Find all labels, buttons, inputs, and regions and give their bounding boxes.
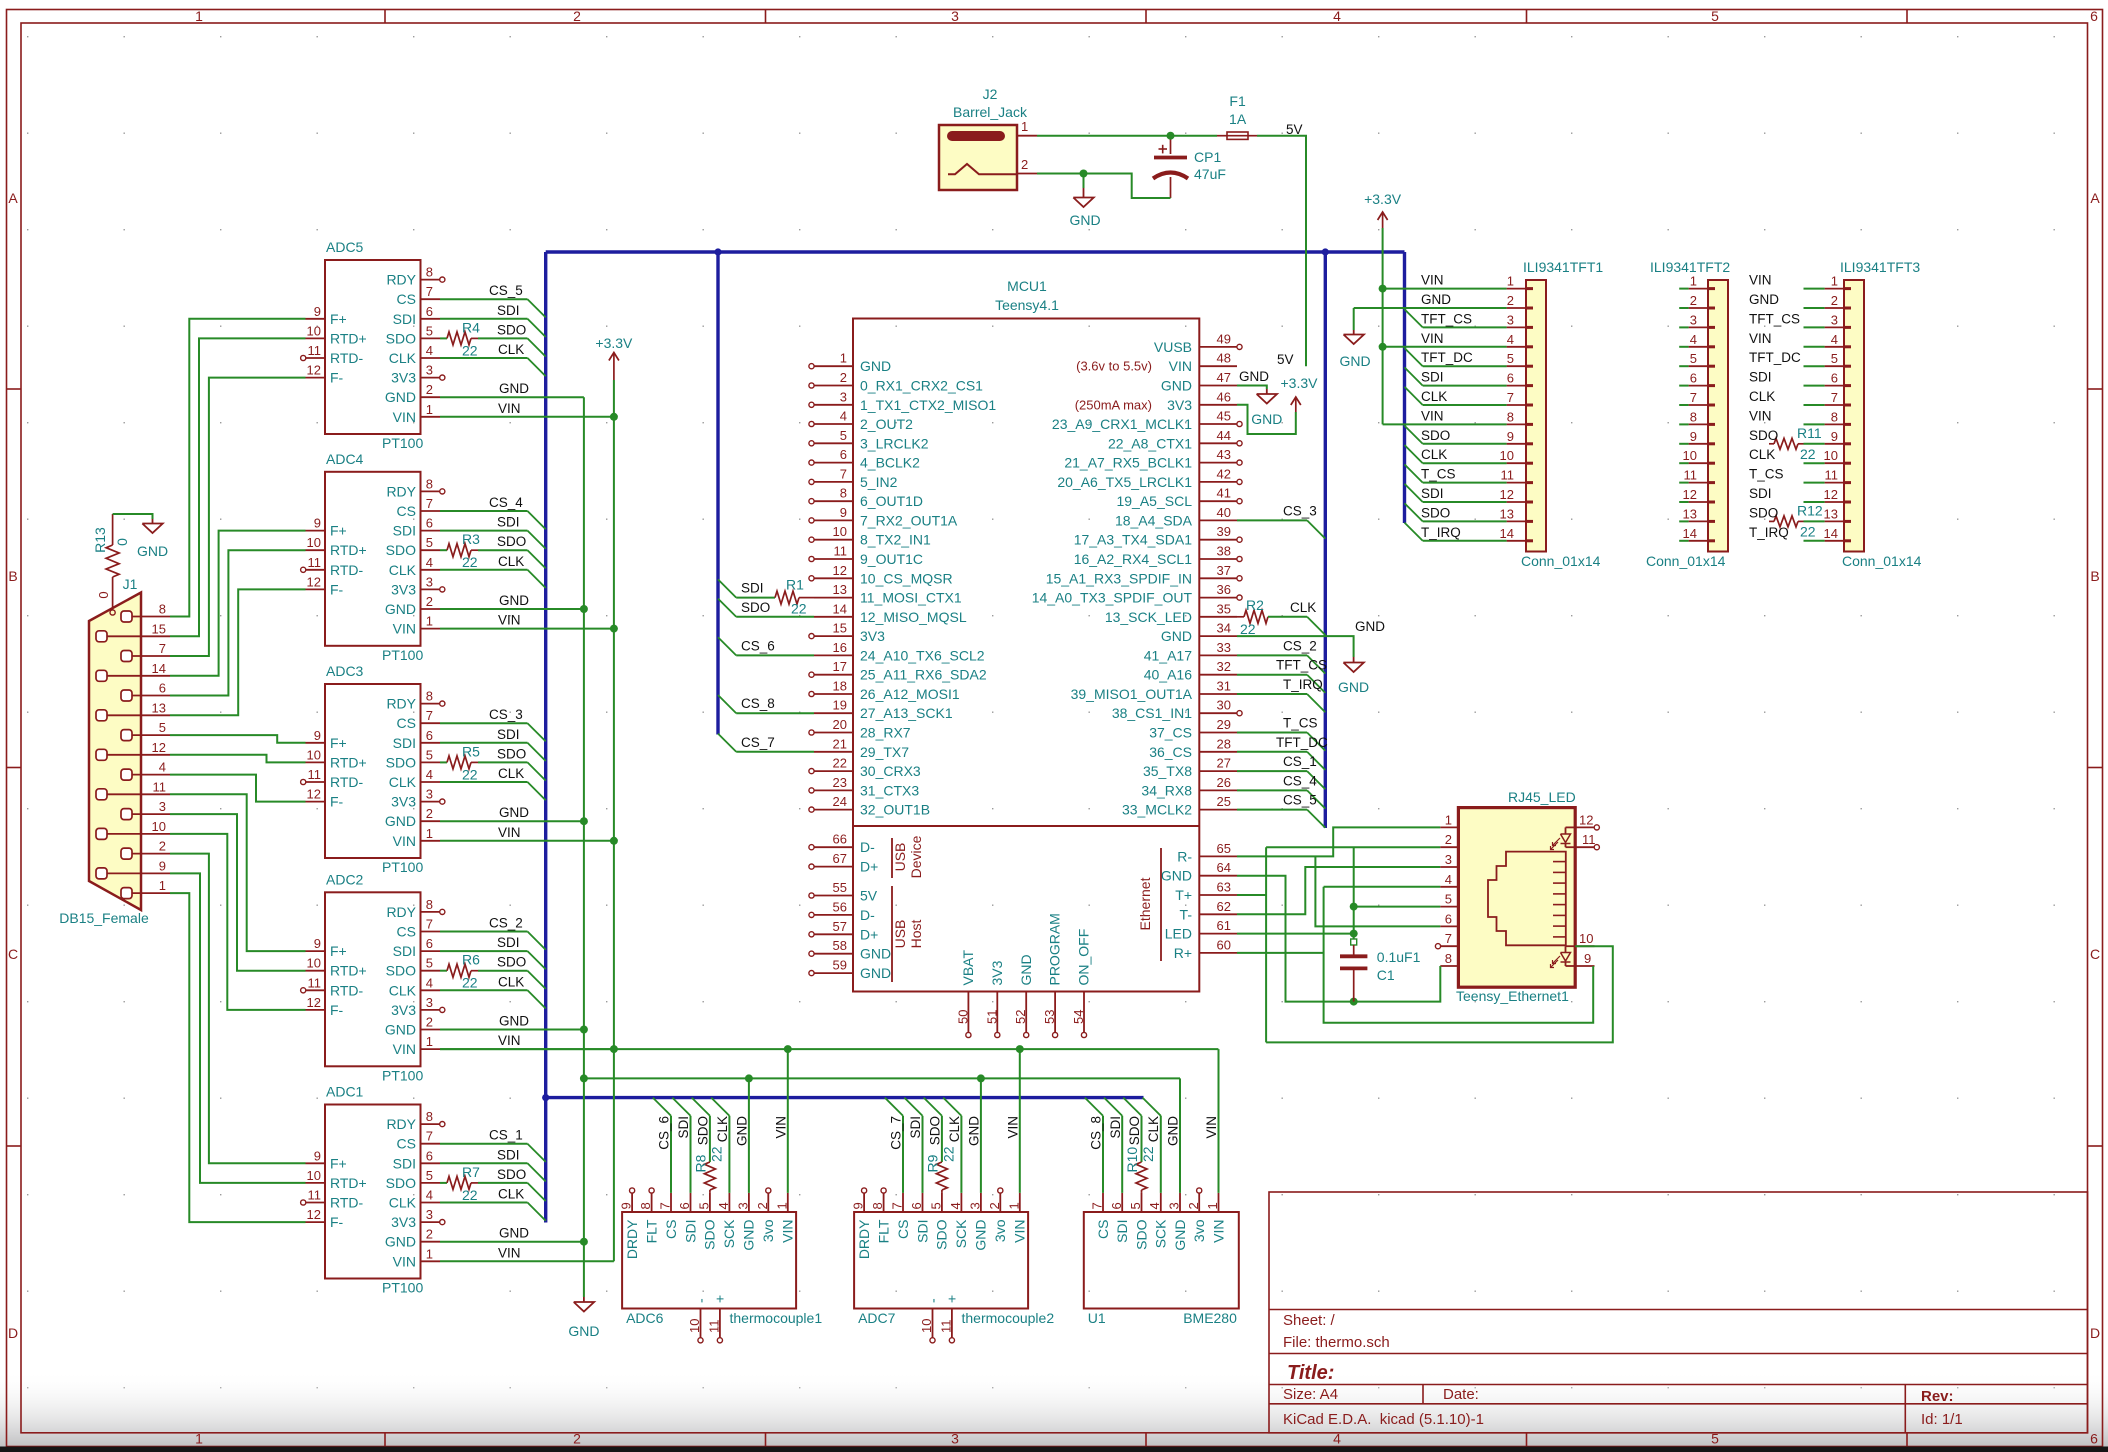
svg-text:Conn_01x14: Conn_01x14	[1842, 553, 1922, 569]
svg-text:2: 2	[1690, 293, 1697, 308]
MCU1 pin 2 0_RX1_CRX2_CS1	[814, 385, 853, 387]
MCU1 pin 13 11_MOSI_CTX1	[814, 597, 853, 599]
wire VIN to TFT1 pin 1	[1383, 288, 1507, 290]
ILI9341TFT3 pin 11 T_CS	[1825, 482, 1844, 484]
wire VIN rail (bottom)	[440, 1048, 1218, 1050]
svg-text:RTD-: RTD-	[330, 350, 364, 366]
svg-text:CS: CS	[397, 1136, 416, 1152]
ILI9341TFT1 pin 8 VIN	[1507, 423, 1526, 425]
svg-text:+3.3V: +3.3V	[1364, 191, 1402, 207]
svg-text:2: 2	[426, 806, 433, 821]
ADC2 pin 3 3V3	[421, 1009, 441, 1011]
svg-text:6: 6	[1109, 1202, 1124, 1209]
bus B3 vertical MCU-left	[716, 252, 719, 735]
svg-text:2: 2	[573, 8, 581, 24]
ADC2 pin 1 VIN	[421, 1048, 441, 1050]
svg-text:3: 3	[1167, 1202, 1182, 1209]
MCU1 pin 28 36_CS	[1199, 751, 1237, 753]
svg-text:33: 33	[1217, 640, 1231, 655]
svg-text:11: 11	[308, 975, 322, 990]
svg-text:GND: GND	[385, 813, 416, 829]
svg-text:GND: GND	[385, 1234, 416, 1250]
svg-text:ADC6: ADC6	[626, 1310, 664, 1326]
ILI9341TFT1 pin 13 SDO	[1507, 520, 1526, 522]
svg-text:18: 18	[833, 679, 847, 694]
MCU1 pin 8 6_OUT1D	[814, 500, 853, 502]
ILI9341TFT3 pin 7 CLK	[1825, 404, 1844, 406]
junction C1 bottom	[1350, 998, 1358, 1006]
svg-text:4: 4	[1147, 1202, 1162, 1209]
svg-text:-: -	[692, 1298, 708, 1303]
svg-text:13_SCK_LED: 13_SCK_LED	[1105, 609, 1192, 625]
svg-text:1: 1	[426, 1034, 433, 1049]
svg-text:5: 5	[426, 747, 433, 762]
wire T+ MCU63 to RJ45 pin2	[1237, 894, 1266, 896]
svg-text:SDI: SDI	[908, 1116, 923, 1139]
RJ45 pin 4	[1440, 886, 1458, 888]
wire J1 pin 9 to ADC	[170, 873, 306, 1183]
ILI9341TFT1 pin 5 TFT_DC	[1507, 365, 1526, 367]
svg-text:32: 32	[1217, 659, 1231, 674]
bus B4 vertical MCU-right	[1324, 252, 1327, 828]
MCU1 pin 17 25_A11_RX6_SDA2	[814, 674, 853, 676]
wire GND from ADC4	[440, 608, 584, 610]
svg-text:CS_6: CS_6	[657, 1116, 672, 1150]
svg-text:GND: GND	[568, 1323, 599, 1339]
svg-text:11_MOSI_CTX1: 11_MOSI_CTX1	[860, 590, 962, 606]
MCU U=MCU1 Teensy4.1 body	[853, 319, 1199, 992]
svg-text:T_IRQ: T_IRQ	[1421, 525, 1461, 540]
ADC1 pin 2 GND	[421, 1241, 441, 1243]
wire stub TFT2 pin 8	[1679, 423, 1688, 425]
wire J1 pin 2 to ADC	[170, 854, 306, 1164]
wire SDO to TFT1 pin 13	[1405, 503, 1423, 521]
U1 pin 7 CS	[1102, 1193, 1104, 1212]
svg-text:2: 2	[426, 1227, 433, 1242]
svg-text:22: 22	[462, 342, 478, 358]
wire J2 pin2 to CP1 bottom	[1037, 174, 1171, 199]
MCU1 pin 16 24_A10_TX6_SCL2	[814, 654, 853, 656]
svg-text:22: 22	[1140, 1146, 1156, 1162]
svg-text:34_RX8: 34_RX8	[1141, 782, 1192, 798]
ADC7 pin 2 3vo	[999, 1193, 1001, 1212]
MCU1 Ethernet pins 60-65	[1199, 855, 1237, 857]
svg-text:SDO: SDO	[741, 600, 770, 615]
svg-text:C: C	[2090, 946, 2100, 962]
svg-text:U1: U1	[1088, 1310, 1106, 1326]
ADC3 pin 12 F-	[306, 801, 326, 803]
ADC2 pin 7 CS	[421, 931, 441, 933]
svg-text:7: 7	[159, 641, 166, 656]
svg-text:1: 1	[159, 878, 166, 893]
ground symbol GND (J2)	[1083, 174, 1085, 189]
svg-text:26_A12_MOSI1: 26_A12_MOSI1	[860, 686, 960, 702]
resistor R10 22 vertical	[1136, 1162, 1147, 1190]
svg-text:SDO: SDO	[1749, 428, 1778, 443]
wire TFT_DC to TFT1 pin 5	[1405, 348, 1423, 366]
MCU1 pin 44 22_A8_CTX1	[1199, 442, 1237, 444]
MCU1 pin 7 5_IN2	[814, 481, 853, 483]
IC ADC4 PT100 body	[325, 472, 421, 646]
svg-text:SDI: SDI	[497, 935, 520, 950]
ADC6 pin 7 CS	[670, 1193, 672, 1212]
svg-text:GND: GND	[499, 593, 529, 608]
svg-text:9: 9	[314, 728, 321, 743]
svg-text:4_BCLK2: 4_BCLK2	[860, 455, 920, 471]
svg-text:18_A4_SDA: 18_A4_SDA	[1115, 512, 1193, 528]
ILI9341TFT2 pin 4	[1689, 346, 1708, 348]
svg-text:T_IRQ: T_IRQ	[1283, 677, 1323, 692]
svg-text:CLK: CLK	[389, 562, 417, 578]
MCU1 USB Host pins 55-59	[814, 895, 853, 897]
J1 pin 1	[121, 888, 132, 899]
svg-text:12: 12	[307, 995, 321, 1010]
resistor R1 22	[775, 591, 799, 604]
svg-text:SDI: SDI	[1421, 370, 1444, 385]
svg-text:-: -	[924, 1298, 940, 1303]
RJ45 LED bottom (pins 9-10)	[1566, 945, 1576, 947]
wire GND from ADC1	[440, 1241, 584, 1243]
wire stub TFT2 pin 2	[1679, 307, 1688, 309]
svg-text:37_CS: 37_CS	[1149, 725, 1192, 741]
MCU1 pin 22 30_CRX3	[814, 770, 853, 772]
svg-text:7: 7	[1507, 390, 1514, 405]
svg-text:4: 4	[159, 760, 166, 775]
ILI9341TFT1 pin 4 VIN	[1507, 346, 1526, 348]
svg-text:RTD-: RTD-	[330, 982, 364, 998]
svg-text:VIN: VIN	[1005, 1116, 1020, 1139]
svg-text:8: 8	[638, 1202, 653, 1209]
svg-text:22: 22	[462, 1187, 478, 1203]
svg-text:GND: GND	[499, 381, 529, 396]
wire GND MCU pin34 + ground symbol	[1237, 636, 1354, 657]
svg-text:7: 7	[426, 496, 433, 511]
svg-text:D: D	[8, 1325, 18, 1341]
svg-text:3V3: 3V3	[391, 794, 416, 810]
svg-text:VIN: VIN	[773, 1116, 788, 1139]
svg-text:GND: GND	[385, 1022, 416, 1038]
svg-text:R3: R3	[462, 531, 480, 547]
svg-text:PT100: PT100	[382, 435, 423, 451]
svg-text:CLK: CLK	[389, 1195, 417, 1211]
svg-text:39_MISO1_OUT1A: 39_MISO1_OUT1A	[1071, 686, 1193, 702]
wire CS_3 from ADC3	[440, 722, 528, 724]
svg-text:6: 6	[677, 1202, 692, 1209]
ADC1 pin 12 F-	[306, 1221, 326, 1223]
svg-text:1: 1	[1507, 274, 1514, 289]
svg-text:12: 12	[1500, 487, 1514, 502]
svg-text:0: 0	[96, 591, 111, 598]
resistor R13 0 (shield)	[112, 514, 114, 545]
RJ45 pin 10	[1575, 945, 1594, 947]
ILI9341TFT3 pin 3 TFT_CS	[1825, 326, 1844, 328]
ADC1 pin 7 CS	[421, 1143, 441, 1145]
svg-text:9: 9	[314, 304, 321, 319]
svg-text:51: 51	[984, 1010, 999, 1024]
J1 pin 9	[96, 868, 107, 879]
svg-text:38_CS1_IN1: 38_CS1_IN1	[1112, 705, 1192, 721]
svg-text:CS: CS	[397, 924, 416, 940]
svg-text:3_LRCLK2: 3_LRCLK2	[860, 435, 929, 451]
wire SDI from ADC5	[440, 318, 528, 320]
svg-text:VIN: VIN	[498, 613, 521, 628]
svg-text:9: 9	[1690, 429, 1697, 444]
resistor R12 22 (TFT3)	[1769, 520, 1774, 522]
wire CS_7 to ADC7	[885, 1098, 903, 1116]
ILI9341TFT2 pin 7	[1689, 404, 1708, 406]
connector J1 DB15_Female body	[89, 593, 141, 911]
svg-text:RTD-: RTD-	[330, 1195, 364, 1211]
wire CLK from ADC4	[440, 569, 528, 571]
svg-text:10: 10	[307, 1168, 321, 1183]
svg-text:23_A9_CRX1_MCLK1: 23_A9_CRX1_MCLK1	[1052, 416, 1192, 432]
svg-text:29: 29	[1217, 717, 1231, 732]
svg-text:6: 6	[426, 1148, 433, 1163]
ADC3 pin 9 F+	[306, 742, 326, 744]
wire SDI from ADC2	[440, 950, 528, 952]
svg-text:CLK: CLK	[715, 1116, 730, 1142]
svg-text:ADC3: ADC3	[326, 663, 364, 679]
wire VIN TFT3 pin 8	[1804, 423, 1825, 425]
wire stub TFT2 pin 11	[1679, 482, 1688, 484]
svg-text:SDI: SDI	[1421, 486, 1444, 501]
ADC5 pin 12 F-	[306, 377, 326, 379]
svg-text:TFT_CS: TFT_CS	[1749, 311, 1800, 326]
svg-text:47uF: 47uF	[1194, 166, 1226, 182]
wire R+ MCU60 to RJ45 pin4 and pin9	[1237, 952, 1324, 954]
svg-text:SDO: SDO	[1421, 428, 1450, 443]
svg-text:CS_5: CS_5	[489, 283, 523, 298]
svg-text:USB: USB	[892, 843, 908, 872]
svg-text:6: 6	[2090, 1431, 2098, 1447]
svg-text:15_A1_RX3_SPDIF_IN: 15_A1_RX3_SPDIF_IN	[1046, 570, 1192, 586]
ILI9341TFT2 pin 12	[1689, 501, 1708, 503]
resistor R11 22 (TFT3)	[1769, 443, 1774, 445]
svg-text:R2: R2	[1246, 597, 1264, 613]
wire VIN to TFT1 pin 4	[1383, 346, 1507, 348]
svg-text:13: 13	[833, 582, 847, 597]
svg-text:GND: GND	[1172, 1220, 1188, 1251]
wire VIN from ADC5	[440, 416, 614, 418]
svg-text:9: 9	[314, 1148, 321, 1163]
svg-text:CLK: CLK	[389, 774, 417, 790]
svg-text:R13: R13	[92, 527, 108, 553]
svg-text:RTD+: RTD+	[330, 542, 367, 558]
ADC6 pin 6 SDI	[690, 1193, 692, 1212]
wire GND to ADC6	[748, 1078, 750, 1193]
wire SDI to MCU1 pin13	[718, 579, 736, 597]
svg-text:SDO: SDO	[695, 1116, 710, 1145]
svg-text:11: 11	[1684, 468, 1698, 483]
ILI9341TFT2 pin 14	[1689, 540, 1708, 542]
wire CLK to ADC6	[711, 1098, 729, 1116]
svg-text:F+: F+	[330, 523, 347, 539]
svg-text:56: 56	[833, 899, 847, 914]
svg-text:5: 5	[696, 1202, 711, 1209]
ADC5 pin 7 CS	[421, 298, 441, 300]
svg-text:GND: GND	[1161, 868, 1192, 884]
ADC5 pin 11 RTD-	[306, 357, 326, 359]
svg-text:10_CS_MQSR: 10_CS_MQSR	[860, 570, 953, 586]
svg-text:Rev:: Rev:	[1921, 1388, 1954, 1405]
svg-text:16: 16	[833, 640, 847, 655]
ADC3 pin 10 RTD+	[306, 761, 326, 763]
svg-text:5V: 5V	[860, 888, 878, 904]
svg-text:12: 12	[833, 563, 847, 578]
ADC7 pin 6 SDI	[922, 1193, 924, 1212]
svg-text:R7: R7	[462, 1164, 480, 1180]
J1 pin 4	[121, 769, 132, 780]
svg-text:7: 7	[426, 284, 433, 299]
svg-text:GND: GND	[1239, 369, 1269, 384]
wire stub TFT2 pin 12	[1679, 501, 1688, 503]
svg-text:CS_4: CS_4	[489, 495, 523, 510]
RJ45 pin 7	[1440, 945, 1458, 947]
RJ45 pin 5	[1440, 906, 1458, 908]
svg-text:+3.3V: +3.3V	[1281, 375, 1319, 391]
svg-text:MCU1: MCU1	[1007, 278, 1047, 294]
junctions +3.3V TFT	[1379, 285, 1387, 293]
junctions GND rail	[580, 605, 588, 613]
svg-text:30: 30	[1217, 698, 1231, 713]
svg-text:10: 10	[307, 956, 321, 971]
svg-text:39: 39	[1217, 524, 1231, 539]
wire T_CS TFT3 pin 11	[1804, 482, 1825, 484]
wire VIN to U1	[1218, 1049, 1220, 1193]
svg-text:46: 46	[1217, 389, 1231, 404]
ADC6 pin 1 VIN	[787, 1193, 789, 1212]
svg-text:12: 12	[1579, 812, 1593, 827]
ADC2 pin 9 F+	[306, 950, 326, 952]
svg-text:BME280: BME280	[1183, 1310, 1237, 1326]
MCU1 pin 24 32_OUT1B	[814, 809, 853, 811]
svg-text:40: 40	[1217, 505, 1231, 520]
svg-text:FLT: FLT	[875, 1219, 891, 1243]
svg-text:VIN: VIN	[393, 409, 416, 425]
svg-text:15: 15	[833, 621, 847, 636]
wire T_CS MCU pin 29 to bus	[1237, 732, 1307, 734]
svg-text:11: 11	[308, 767, 322, 782]
ADC6 pin 11 +	[719, 1309, 721, 1339]
svg-text:CS: CS	[1095, 1220, 1111, 1239]
svg-text:SDI: SDI	[914, 1220, 930, 1243]
ILI9341TFT1 pin 3 TFT_CS	[1507, 326, 1526, 328]
wire GND from ADC5	[440, 396, 584, 398]
svg-text:3V3: 3V3	[391, 1002, 416, 1018]
wire CLK TFT3 pin 10	[1804, 462, 1825, 464]
svg-text:1: 1	[426, 826, 433, 841]
svg-text:3: 3	[1831, 312, 1838, 327]
svg-text:CLK: CLK	[498, 1187, 524, 1202]
svg-text:5_IN2: 5_IN2	[860, 474, 898, 490]
IC ADC2 PT100 body	[325, 892, 421, 1066]
ADC6 pin 5 SDO	[709, 1193, 711, 1212]
svg-text:F-: F-	[330, 794, 344, 810]
svg-text:SDO: SDO	[1749, 505, 1778, 520]
svg-text:CS_1: CS_1	[1283, 754, 1317, 769]
junction CP1 top	[1167, 132, 1175, 140]
J1 pin 11	[96, 789, 107, 800]
svg-text:22_A8_CTX1: 22_A8_CTX1	[1108, 435, 1192, 451]
svg-text:R10: R10	[1124, 1147, 1140, 1173]
svg-text:F+: F+	[330, 943, 347, 959]
svg-text:22: 22	[1800, 523, 1816, 539]
svg-text:24_A10_TX6_SCL2: 24_A10_TX6_SCL2	[860, 647, 985, 663]
svg-text:19: 19	[833, 698, 847, 713]
ADC3 pin 2 GND	[421, 820, 441, 822]
junctions +3.3V rail	[610, 413, 618, 421]
wire SDI to U1	[1104, 1098, 1122, 1116]
svg-text:3: 3	[426, 574, 433, 589]
svg-text:3V3: 3V3	[391, 370, 416, 386]
svg-text:9: 9	[840, 505, 847, 520]
MCU1 pin 35 13_SCK_LED	[1199, 616, 1237, 618]
svg-text:5: 5	[1690, 351, 1697, 366]
svg-text:11: 11	[834, 544, 848, 559]
svg-text:CLK: CLK	[1749, 447, 1775, 462]
svg-text:GND: GND	[1338, 679, 1369, 695]
MCU1 pin 46 3V3	[1199, 404, 1237, 406]
wire SDO to MCU1 pin14	[718, 599, 736, 617]
ADC3 pin 3 3V3	[421, 801, 441, 803]
svg-text:F+: F+	[330, 311, 347, 327]
J1 pin 14	[96, 670, 107, 681]
IC ADC7 thermocouple2 body	[854, 1212, 1028, 1309]
svg-text:SDI: SDI	[1749, 486, 1772, 501]
MCU1 pin 33 41_A17	[1199, 654, 1237, 656]
svg-text:25_A11_RX6_SDA2: 25_A11_RX6_SDA2	[860, 667, 987, 683]
wire GND TFT3 pin 2	[1804, 307, 1825, 309]
svg-text:37: 37	[1217, 563, 1231, 578]
svg-text:31: 31	[1217, 679, 1231, 694]
svg-text:8: 8	[1690, 409, 1697, 424]
wire GND from ADC2	[440, 1029, 584, 1031]
svg-text:CS_8: CS_8	[1089, 1116, 1104, 1150]
svg-text:R-: R-	[1177, 848, 1192, 864]
wire VIN from ADC3	[440, 840, 614, 842]
svg-text:SDO: SDO	[386, 330, 416, 346]
svg-text:A: A	[8, 190, 18, 206]
svg-text:SDO: SDO	[386, 754, 416, 770]
resistor R7 22 on ADC1 SDO	[440, 1182, 447, 1184]
svg-text:SDO: SDO	[497, 955, 526, 970]
svg-text:59: 59	[833, 958, 847, 973]
svg-text:10: 10	[1579, 931, 1593, 946]
svg-text:15: 15	[152, 621, 166, 636]
ADC2 pin 6 SDI	[421, 950, 441, 952]
svg-text:7: 7	[426, 917, 433, 932]
svg-text:7: 7	[1831, 390, 1838, 405]
svg-text:5: 5	[1711, 8, 1719, 24]
wire J1 pin 14 to ADC	[170, 531, 306, 676]
wire SDO to ADC7	[924, 1098, 942, 1116]
IC ADC1 PT100 body	[325, 1105, 421, 1279]
J1 pin 8	[121, 611, 132, 622]
svg-text:CLK: CLK	[389, 350, 417, 366]
svg-text:44: 44	[1217, 428, 1231, 443]
wire SDI to ADC6	[672, 1098, 690, 1116]
ADC4 pin 6 SDI	[421, 530, 441, 532]
wire CS_6 to MCU1 pin 16	[718, 637, 736, 655]
MCU1 pin 31 39_MISO1_OUT1A	[1199, 693, 1237, 695]
svg-text:D-: D-	[860, 839, 875, 855]
svg-text:5: 5	[426, 323, 433, 338]
svg-text:A: A	[2090, 190, 2100, 206]
wire stub TFT2 pin 14	[1679, 540, 1688, 542]
svg-text:6: 6	[1445, 911, 1452, 926]
svg-text:GND: GND	[499, 1014, 529, 1029]
svg-text:3: 3	[426, 363, 433, 378]
